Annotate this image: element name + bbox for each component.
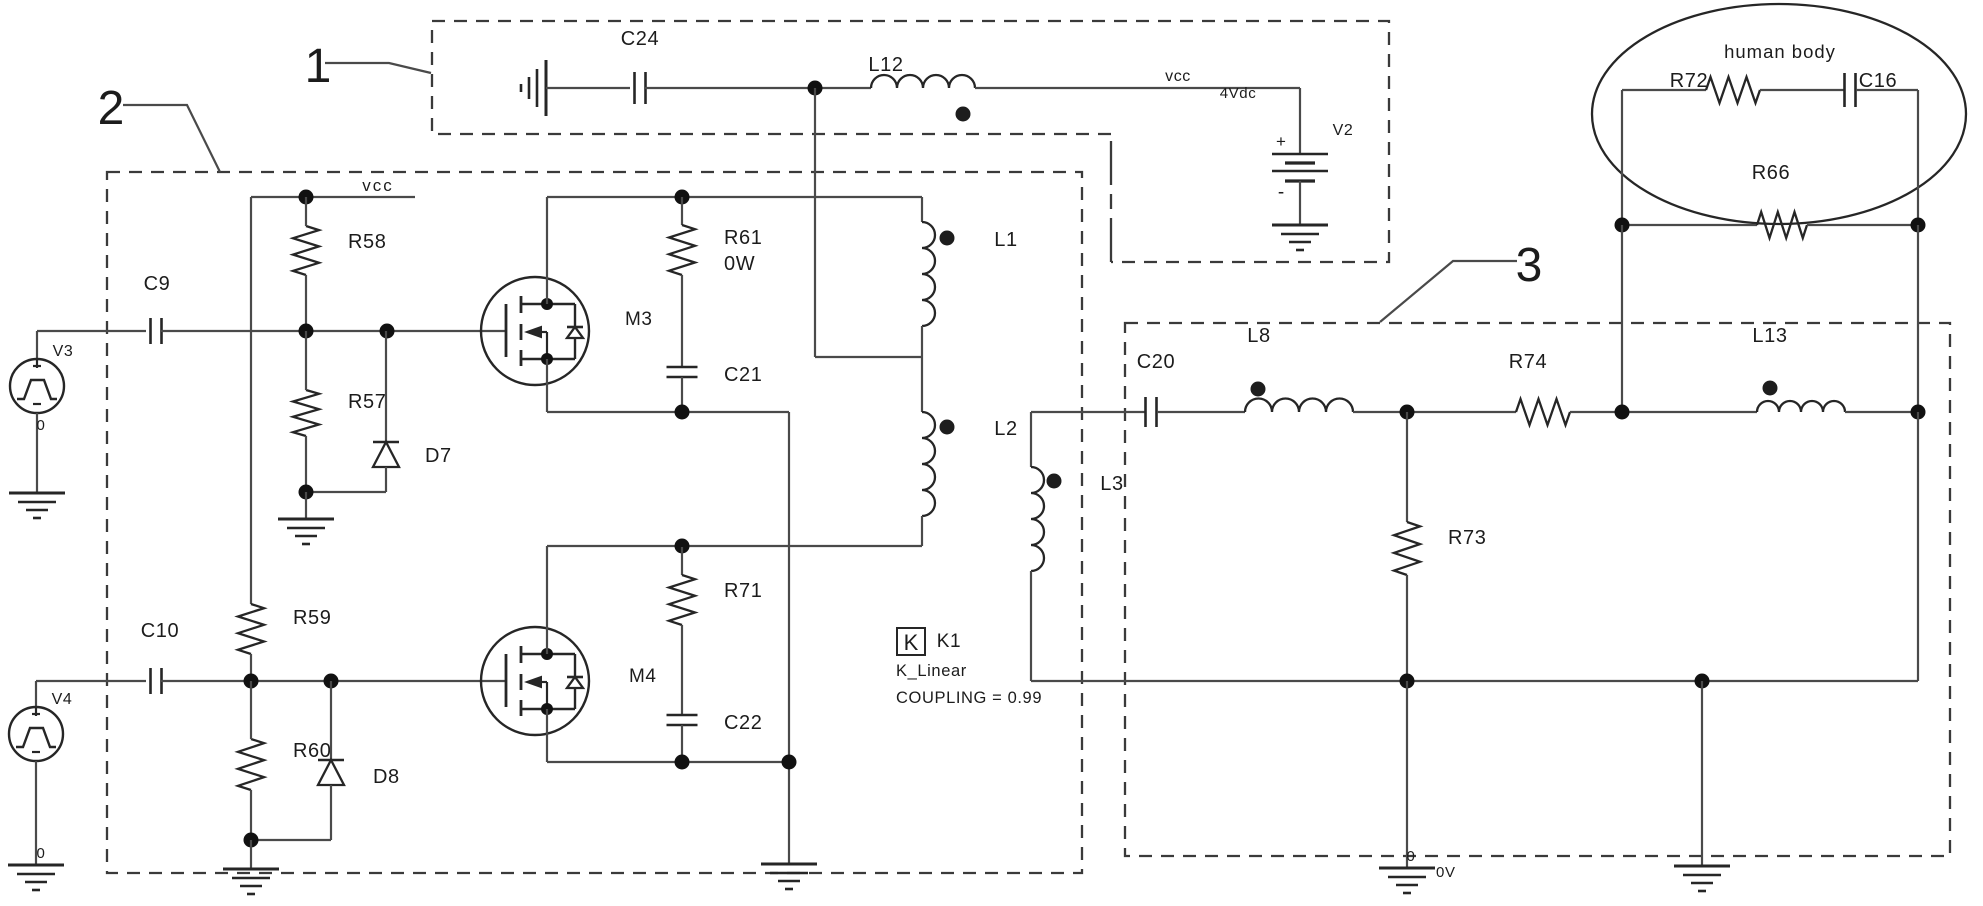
svg-text:C10: C10 bbox=[141, 620, 180, 642]
svg-text:V2: V2 bbox=[1333, 122, 1354, 139]
svg-text:L12: L12 bbox=[868, 54, 903, 76]
svg-text:L13: L13 bbox=[1752, 325, 1787, 347]
svg-text:0W: 0W bbox=[724, 253, 755, 275]
svg-text:vcc: vcc bbox=[362, 176, 394, 195]
svg-text:4Vdc: 4Vdc bbox=[1220, 85, 1257, 102]
svg-text:R71: R71 bbox=[724, 580, 763, 602]
svg-text:+: + bbox=[1276, 132, 1286, 151]
svg-text:R73: R73 bbox=[1448, 527, 1487, 549]
svg-text:3: 3 bbox=[1516, 239, 1543, 292]
svg-text:K1: K1 bbox=[937, 631, 961, 652]
svg-text:L8: L8 bbox=[1247, 325, 1270, 347]
svg-text:M3: M3 bbox=[625, 309, 653, 330]
svg-text:C24: C24 bbox=[621, 28, 660, 50]
svg-text:R58: R58 bbox=[348, 231, 387, 253]
svg-text:R61: R61 bbox=[724, 227, 763, 249]
svg-text:0: 0 bbox=[37, 845, 46, 862]
svg-text:C22: C22 bbox=[724, 712, 763, 734]
svg-text:R72: R72 bbox=[1670, 70, 1709, 92]
svg-text:C20: C20 bbox=[1137, 351, 1176, 373]
svg-text:0: 0 bbox=[1407, 848, 1416, 865]
svg-text:L1: L1 bbox=[994, 229, 1017, 251]
svg-text:V3: V3 bbox=[53, 343, 74, 360]
svg-text:L3: L3 bbox=[1100, 473, 1123, 495]
svg-text:K: K bbox=[904, 630, 919, 655]
svg-text:L2: L2 bbox=[994, 418, 1017, 440]
svg-text:0V: 0V bbox=[1436, 864, 1456, 881]
svg-text:R57: R57 bbox=[348, 391, 387, 413]
svg-text:vcc: vcc bbox=[1165, 68, 1191, 85]
svg-text:0: 0 bbox=[37, 417, 46, 434]
svg-text:M4: M4 bbox=[629, 666, 657, 687]
svg-text:-: - bbox=[1278, 182, 1284, 203]
svg-text:D8: D8 bbox=[373, 766, 400, 788]
svg-text:D7: D7 bbox=[425, 445, 452, 467]
svg-text:C9: C9 bbox=[144, 273, 171, 295]
svg-text:1: 1 bbox=[305, 40, 332, 93]
svg-text:V4: V4 bbox=[52, 691, 73, 708]
svg-text:K_Linear: K_Linear bbox=[896, 662, 967, 680]
svg-text:C21: C21 bbox=[724, 364, 763, 386]
svg-text:R59: R59 bbox=[293, 607, 332, 629]
svg-text:R66: R66 bbox=[1752, 162, 1791, 184]
svg-text:R74: R74 bbox=[1509, 351, 1548, 373]
svg-text:2: 2 bbox=[98, 82, 125, 135]
svg-text:C16: C16 bbox=[1859, 70, 1898, 92]
svg-text:COUPLING = 0.99: COUPLING = 0.99 bbox=[896, 689, 1042, 707]
svg-text:human body: human body bbox=[1724, 41, 1836, 62]
